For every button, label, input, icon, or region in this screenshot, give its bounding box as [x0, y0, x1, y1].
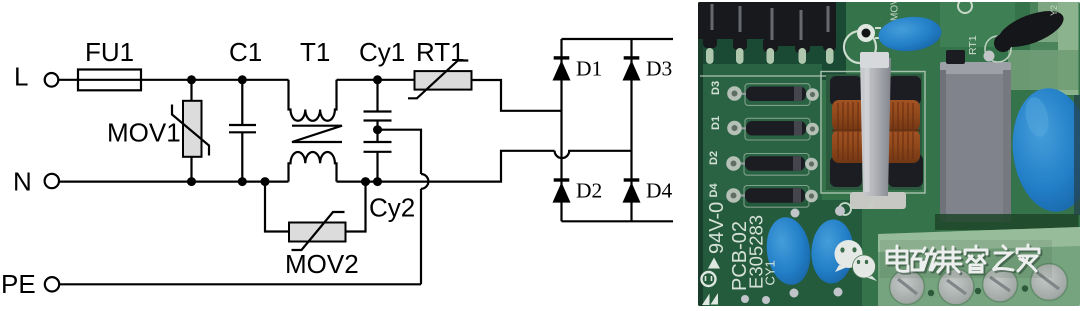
bottom-left dark [698, 200, 862, 306]
char rong [967, 248, 989, 274]
triangle marks [702, 294, 710, 306]
inductor T1 bottom winding [289, 152, 337, 182]
RT1 black blob [994, 4, 1068, 55]
terminal N [45, 174, 59, 188]
bridge right rail [630, 39, 632, 221]
char dian [889, 248, 910, 273]
slight dusk overlay [698, 2, 1080, 306]
char ci [913, 250, 938, 272]
char ci [911, 248, 936, 270]
pad circle bottom left of choke [839, 203, 851, 215]
varistor MOV2 [289, 212, 346, 250]
fuse FU1 [78, 70, 141, 91]
diode D3 photo [710, 81, 819, 105]
wire N after T1 [337, 151, 555, 182]
silkscreen markings left bottom [706, 202, 778, 291]
terminal PE [45, 277, 59, 291]
char jian [937, 247, 961, 272]
svg-text:MOV1: MOV1 [107, 118, 181, 148]
pad rings above choke [844, 31, 876, 63]
wire RT1 to bridge [472, 80, 562, 111]
inductor T1 top winding [289, 80, 337, 121]
svg-text:Cy1: Cy1 [359, 37, 405, 67]
choke copper winding upper [832, 100, 920, 131]
bridge left rail [560, 39, 562, 221]
char jia [1017, 245, 1039, 271]
diode D4 photo [708, 183, 818, 208]
watermark text shadow 电磁兼容之家 [889, 247, 1041, 274]
svg-text:C1: C1 [229, 37, 262, 67]
white pad top right [958, 0, 972, 13]
watermark text 电磁兼容之家 (drawn strokes) [887, 245, 1039, 272]
white bobbin base [850, 192, 906, 209]
varistor MOV1 branch wires [190, 80, 192, 182]
svg-text:MOV2: MOV2 [285, 249, 359, 279]
metal clamp bracket [860, 58, 891, 196]
char jia [1019, 247, 1041, 273]
junction dots [187, 75, 382, 186]
choke black corners [830, 76, 923, 187]
capacitor Cy1 [364, 80, 392, 142]
bridge top rail [562, 38, 674, 40]
screws [890, 264, 1068, 306]
cap solder joints [741, 206, 845, 304]
big blue cap right [1007, 84, 1080, 215]
svg-text:N: N [13, 167, 32, 197]
silkscreen circle around RT1 pad [985, 36, 1011, 62]
wechat logo small bubble [853, 255, 876, 278]
char zhi [993, 246, 1013, 270]
silkscreen line under connector [700, 75, 828, 77]
photo right edge [1074, 95, 1080, 215]
relay gray block [940, 62, 1011, 222]
photo left dark edge [698, 2, 703, 306]
wire Cy midpoint to PE [378, 130, 422, 174]
darker top-left zone [698, 2, 846, 80]
wechat logo big bubble [835, 240, 878, 281]
left column zone [698, 64, 822, 214]
char zhi [995, 248, 1015, 272]
svg-text:D3: D3 [646, 57, 672, 81]
svg-text:Cy2: Cy2 [369, 193, 415, 223]
capacitor C1 [229, 80, 256, 182]
wire hop over N line [421, 174, 428, 189]
svg-text:FU1: FU1 [85, 37, 134, 67]
wire L after T1 [337, 79, 415, 81]
varistor MOV1 [172, 101, 209, 157]
light top-right zone [1030, 2, 1079, 90]
terminal L [45, 73, 59, 87]
char rong [965, 246, 987, 272]
diode D1 [553, 56, 571, 80]
diode D3 [623, 56, 641, 80]
terminal block [878, 227, 1080, 306]
top blue cap [877, 14, 943, 53]
black nub on relay [946, 50, 965, 64]
svg-text:D1: D1 [576, 57, 602, 81]
char dian [887, 246, 908, 271]
svg-text:D4: D4 [646, 179, 673, 203]
svg-text:L: L [14, 62, 28, 92]
diode D2 [553, 178, 571, 202]
bottom-left blue cap 2 [810, 218, 855, 284]
char jian [939, 249, 963, 274]
svg-text:T1: T1 [300, 37, 330, 67]
wire L run [59, 79, 289, 81]
bottom-left blue cap 1 [762, 214, 814, 287]
shadow under relay [935, 214, 1079, 230]
svg-text:PE: PE [1, 269, 36, 299]
wire N run [59, 181, 288, 183]
wire hop over left rail [555, 151, 632, 158]
connector highlights [712, 4, 828, 40]
connector solder pads [706, 48, 834, 64]
light green right of terminal screws zone top [940, 2, 1015, 47]
UL circle mark [708, 258, 720, 269]
svg-text:RT1: RT1 [416, 37, 465, 67]
capacitor Cy2 [364, 152, 392, 182]
diode D2 photo [708, 151, 818, 175]
thermistor RT1 [408, 61, 472, 99]
choke silkscreen box [826, 74, 922, 190]
solder shine [984, 51, 995, 62]
varistor MOV2 branch wires [265, 182, 366, 232]
connector block left [698, 2, 836, 53]
diode D4 [623, 178, 641, 202]
winding stripes [838, 102, 913, 161]
diode D1 photo [710, 116, 819, 140]
svg-text:D2: D2 [576, 179, 602, 203]
watermark dark backing [880, 240, 1052, 278]
pcb base [698, 2, 1080, 306]
bridge bottom rail [562, 220, 674, 222]
choke copper winding lower [832, 130, 920, 163]
wire down to PE [59, 189, 421, 284]
T1 core [292, 126, 342, 142]
